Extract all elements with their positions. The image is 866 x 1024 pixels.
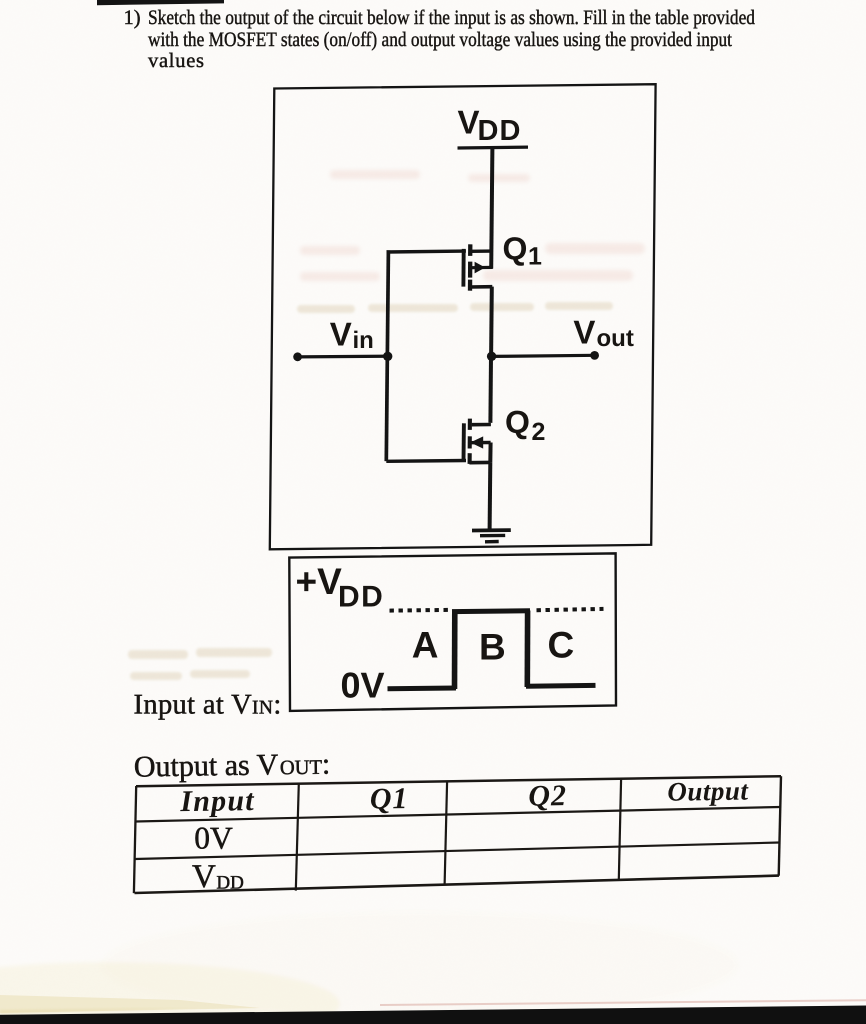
svg-text:1: 1	[528, 242, 542, 270]
svg-text:B: B	[479, 626, 506, 667]
svg-text:Output as V: Output as V	[134, 748, 279, 783]
svg-text:OUT: OUT	[280, 757, 323, 780]
svg-text:V: V	[573, 314, 595, 351]
svg-text:DD: DD	[478, 115, 522, 147]
svg-text:in: in	[353, 327, 374, 354]
svg-text:V: V	[458, 104, 480, 141]
svg-text:0V: 0V	[341, 664, 385, 705]
svg-text:+V: +V	[296, 561, 343, 602]
svg-text:DD: DD	[338, 580, 384, 613]
svg-text:Input: Input	[179, 784, 255, 818]
svg-text:with the MOSFET states (on/off: with the MOSFET states (on/off) and outp…	[148, 29, 732, 51]
svg-text:1): 1)	[124, 7, 141, 29]
svg-text:out: out	[597, 325, 634, 352]
svg-text:C: C	[548, 625, 575, 666]
svg-text:Q: Q	[505, 404, 530, 440]
svg-text:V: V	[330, 316, 352, 353]
svg-text:Q2: Q2	[528, 779, 567, 813]
svg-text:Q: Q	[503, 231, 528, 267]
svg-text:Q1: Q1	[370, 782, 409, 816]
svg-text::: :	[322, 748, 331, 781]
svg-text:Output: Output	[667, 776, 749, 807]
svg-text:0V: 0V	[194, 821, 233, 856]
svg-text:Sketch the output of the circu: Sketch the output of the circuit below i…	[148, 7, 755, 29]
svg-text:A: A	[412, 625, 439, 666]
svg-text:values: values	[148, 50, 204, 72]
svg-text:2: 2	[532, 418, 546, 446]
